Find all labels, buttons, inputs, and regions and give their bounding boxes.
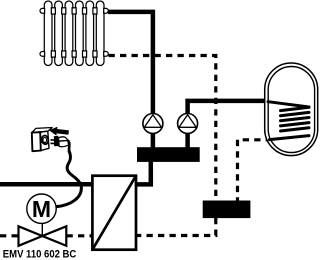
wire pump P2 bottom to manifold M1 bbox=[185, 133, 190, 148]
motor M bbox=[27, 194, 56, 223]
wire power cable from plug to motor bbox=[57, 151, 82, 207]
wire dashed return pipe radiator to node, down to header M2 bbox=[109, 56, 216, 201]
svg-text:M: M bbox=[32, 196, 51, 222]
arrow pointing to socket bbox=[48, 126, 69, 137]
wall socket icon bbox=[32, 128, 52, 152]
wire dashed return line valve to heat exchanger bbox=[67, 234, 93, 237]
wire dashed pipe header M2 bottom to heat exchanger bbox=[135, 218, 216, 236]
wire supply pipe pump P2 to tank coil bbox=[188, 101, 271, 115]
pump P1 bbox=[143, 114, 163, 134]
wire supply pipe radiator to pump P1 bbox=[108, 12, 153, 115]
plug P bbox=[51, 136, 70, 153]
svg-text:EMV 110 602 BC: EMV 110 602 BC bbox=[3, 249, 77, 260]
wire manifold M1 to heat exchanger right top bbox=[135, 161, 151, 184]
wire motor stem to valve bbox=[41, 223, 43, 236]
tank coil bbox=[268, 102, 309, 140]
wire dashed return pipe tank coil to header M2 bbox=[238, 140, 273, 201]
wire supply pipe from left edge to heat exchanger bbox=[0, 182, 93, 187]
tank T1 bbox=[265, 63, 318, 156]
manifold M1 bbox=[137, 147, 200, 162]
valve V1 bbox=[19, 226, 67, 246]
heat exchanger E1 bbox=[92, 176, 136, 250]
wire dashed return line left edge to valve bbox=[0, 234, 19, 237]
radiator bbox=[40, 1, 108, 66]
pump P2 bbox=[178, 114, 198, 134]
wire pump P1 bottom to manifold M1 bbox=[151, 133, 156, 148]
header M2 bbox=[203, 201, 251, 219]
